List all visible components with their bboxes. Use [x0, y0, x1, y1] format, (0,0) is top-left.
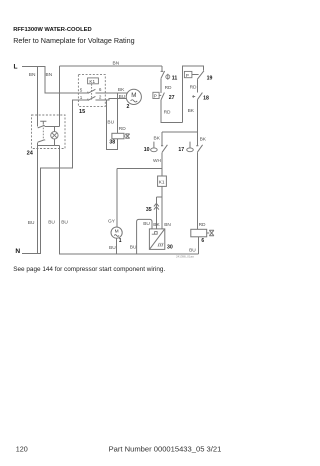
svg-text:L: L: [14, 64, 18, 71]
svg-text:24: 24: [27, 151, 34, 157]
wire 11 to 27 RD: [160, 78, 162, 93]
svg-text:BU: BU: [28, 220, 35, 226]
svg-text:241398_01aa: 241398_01aa: [176, 254, 194, 258]
switch 24 top lever: [38, 125, 45, 128]
wire BU loop level box to N: [137, 219, 152, 254]
wire 19 to 18 RD: [196, 79, 198, 92]
svg-text:18: 18: [203, 96, 209, 102]
svg-text:1: 1: [80, 95, 83, 100]
svg-text:BK: BK: [154, 135, 161, 141]
svg-text:M: M: [115, 228, 119, 234]
relay box 15 dashed: [78, 75, 105, 107]
wire lamp bottom to bar: [38, 139, 60, 146]
svg-text:10: 10: [144, 147, 150, 153]
mechanical link K1 contacts: [91, 84, 93, 100]
svg-text:BK: BK: [118, 87, 125, 93]
svg-text:BU: BU: [130, 245, 137, 251]
svg-text:K1: K1: [159, 180, 165, 185]
svg-text:RD: RD: [119, 126, 126, 132]
wire contact 2 to compressor BU: [96, 99, 127, 100]
thermostat symbol 11: [167, 74, 169, 80]
svg-text:Refer to Nameplate for Voltage: Refer to Nameplate for Voltage Rating: [13, 36, 134, 45]
switch 19 lever: [197, 71, 204, 80]
svg-text:BK: BK: [200, 136, 207, 142]
contact K1 1-2 lever: [88, 96, 96, 100]
svg-text:BU: BU: [61, 219, 68, 225]
pump motor 1: [111, 227, 122, 238]
float switch 17: [190, 142, 203, 153]
svg-text:BN: BN: [164, 222, 171, 228]
svg-text:5: 5: [80, 87, 83, 92]
electrode symbol 35: [154, 203, 159, 209]
svg-text:38: 38: [109, 139, 115, 145]
svg-text:6: 6: [201, 238, 204, 244]
wire pin1 row left + down jog: [41, 100, 88, 254]
svg-text:BU: BU: [143, 221, 150, 227]
wire 18 down BK: [196, 100, 198, 146]
contact K1 5-6 lever: [88, 89, 96, 93]
wire BN bus top: [59, 65, 162, 67]
wire box24 exits to N: [38, 146, 199, 254]
svg-text:RFF1300W WATER-COOLED: RFF1300W WATER-COOLED: [13, 27, 91, 33]
svg-text:15: 15: [79, 109, 85, 115]
switch 24 T handle: [40, 121, 46, 124]
svg-text:N: N: [15, 248, 20, 255]
svg-text:Part Number 000015433_05 3/21: Part Number 000015433_05 3/21: [109, 444, 222, 453]
svg-text:BU: BU: [189, 247, 196, 253]
switch 24 link dashed: [42, 125, 44, 141]
svg-text:17: 17: [178, 147, 184, 153]
svg-text:BN: BN: [46, 72, 53, 78]
svg-text:2: 2: [127, 104, 130, 110]
wire K1 to level box BN: [161, 186, 163, 229]
svg-text:BU: BU: [107, 120, 114, 126]
svg-text:RD: RD: [199, 222, 206, 228]
wire BK tap down to coil 38: [117, 93, 119, 133]
wire valve 6 to N: [198, 237, 200, 254]
svg-text:BK: BK: [188, 108, 195, 114]
wire 27 down RD to jog: [161, 100, 183, 123]
svg-text:RD: RD: [190, 84, 197, 90]
wire L feeder to K1 contact 5: [22, 67, 88, 94]
wire branch electrode 35 BK: [157, 197, 163, 229]
wire pump branch: [117, 169, 162, 228]
svg-text:BN: BN: [113, 60, 120, 66]
wire contact 6 to compressor BK: [96, 92, 128, 94]
compressor motor 2: [126, 89, 141, 104]
svg-text:19: 19: [207, 76, 213, 82]
switch 11 branch from BN bus: [161, 66, 163, 71]
wire 10 down WH: [161, 152, 163, 176]
pressure box 27: [153, 92, 159, 98]
N bus left segment: [22, 253, 41, 255]
svg-text:RD: RD: [164, 110, 171, 116]
svg-text:K1: K1: [89, 79, 95, 84]
switch 27 lever: [161, 93, 164, 100]
solenoid valve 6: [191, 229, 207, 237]
svg-text:BU: BU: [119, 94, 126, 100]
svg-text:P: P: [154, 94, 157, 99]
wire junction to switch 10: [162, 132, 197, 146]
float switch 10: [154, 142, 168, 153]
svg-text:BU: BU: [109, 245, 116, 251]
wire BU drop from pin2 row: [107, 100, 118, 149]
level control box 30: [149, 229, 164, 250]
solenoid coil 38: [112, 133, 124, 139]
switch 18 lever + thermal symbol: [192, 93, 202, 100]
lamp 24: [51, 132, 58, 139]
wire lamp feed top: [45, 127, 60, 132]
svg-text:30: 30: [167, 244, 173, 250]
svg-text:P: P: [186, 73, 189, 78]
switch box 24 dashed: [32, 115, 66, 149]
wire pump to N BU: [116, 238, 118, 254]
relay coil K1: [158, 176, 167, 186]
svg-text:See page 144 for compressor st: See page 144 for compressor start compon…: [13, 266, 165, 273]
svg-text:35: 35: [146, 207, 152, 213]
svg-text:GY: GY: [108, 218, 116, 224]
svg-text:WH: WH: [153, 158, 162, 164]
valve symbol 38: [124, 134, 130, 138]
wire 17 down to valve 6 RD: [196, 152, 198, 229]
svg-text:27: 27: [169, 95, 175, 101]
svg-text:1: 1: [119, 238, 122, 244]
svg-text:2: 2: [99, 95, 102, 100]
svg-text:RD: RD: [165, 85, 172, 91]
svg-text:11: 11: [172, 75, 178, 81]
switch 11 lever: [161, 71, 165, 78]
wire BN drop 2 (bus to lamp box 24): [58, 66, 60, 127]
switch 24 bottom lever: [38, 140, 45, 142]
relay K1 label box: [88, 78, 99, 84]
svg-text:M: M: [131, 92, 136, 99]
svg-text:BN: BN: [29, 72, 36, 78]
svg-text:120: 120: [16, 444, 28, 453]
svg-text:6: 6: [99, 87, 102, 92]
wire BN drop 1 (L to switch 24): [37, 67, 39, 127]
pressure box 19: [184, 71, 192, 77]
svg-text:BK: BK: [153, 222, 160, 228]
wire up to branch 19: [183, 66, 204, 123]
svg-text:BU: BU: [48, 219, 55, 225]
